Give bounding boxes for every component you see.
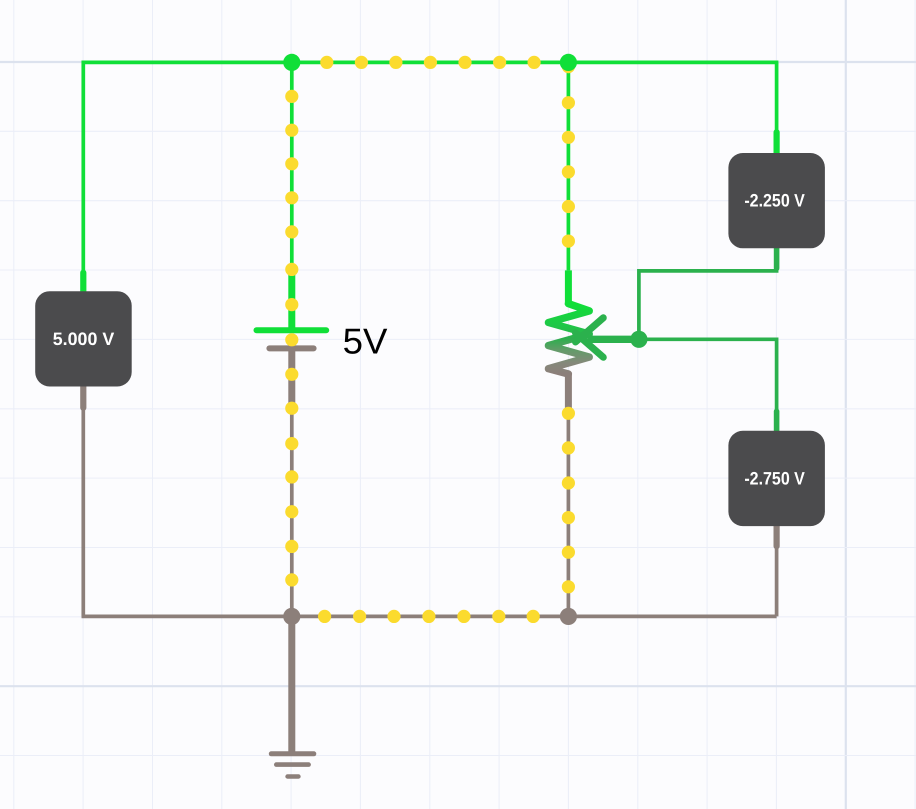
voltmeter M1: top stub bbox=[80, 273, 86, 296]
battery V1: negative plate bbox=[269, 345, 313, 351]
ground: bar 2 bbox=[276, 762, 308, 767]
svg-text:5.000 V: 5.000 V bbox=[53, 329, 115, 349]
wire: gray net, battery column below battery bbox=[290, 409, 294, 616]
svg-text:5V: 5V bbox=[343, 320, 388, 361]
voltmeter M3: body bbox=[728, 431, 825, 526]
ground: bar 3 bbox=[288, 774, 299, 778]
battery V1 (5V): positive lead bbox=[288, 270, 295, 331]
node junction: wiper node bbox=[630, 331, 647, 348]
svg-text:-2.250 V: -2.250 V bbox=[744, 191, 805, 211]
svg-text:-2.750 V: -2.750 V bbox=[744, 468, 805, 488]
potentiometer R1: bottom lead bbox=[565, 373, 572, 412]
node junction: pot column / top rail bbox=[560, 54, 577, 71]
voltmeter M3: top stub bbox=[774, 411, 780, 435]
wire: bright green net, potentiometer column above pot bbox=[567, 62, 571, 270]
wire: gray net, left column below 5.000V meter bbox=[81, 409, 85, 616]
voltmeter M1: body bbox=[35, 291, 132, 386]
node junction: battery column / top rail bbox=[283, 54, 300, 71]
node junction: pot column / bottom rail bbox=[560, 608, 577, 625]
wire: bright green net, right column down to -2.250V meter bbox=[775, 62, 779, 135]
voltmeter M2: top stub bbox=[773, 132, 779, 157]
wire: wiper net, from below -2.250V meter left and down to wiper junction bbox=[639, 248, 777, 340]
wire: bright green net, battery column above battery bbox=[290, 62, 294, 270]
current flow dots: pot column upper bbox=[562, 96, 575, 248]
wire: gray net, potentiometer column below pot bbox=[567, 411, 571, 616]
wire: gray net, right column below -2.750V meter bbox=[775, 548, 779, 616]
wire: bright green net, left column above 5.000V meter bbox=[81, 61, 85, 271]
voltmeter M2: body bbox=[728, 153, 825, 248]
potentiometer R1: wiper arrow shaft bbox=[591, 336, 639, 343]
current flow dots: pot column lower bbox=[562, 407, 575, 594]
ground: bar 1 bbox=[271, 751, 314, 756]
current flow dot hidden under junction bbox=[562, 60, 575, 73]
current flow dots: battery column bbox=[285, 90, 298, 587]
potentiometer R1: wiper arrowhead lower arm bbox=[576, 333, 604, 357]
wire: wiper net, from wiper junction right and down to -2.750V meter bbox=[639, 339, 777, 411]
battery V1: positive plate bbox=[257, 327, 327, 333]
battery V1: negative lead bbox=[288, 347, 295, 411]
potentiometer R1: wiper arrowhead upper arm bbox=[576, 318, 604, 342]
current flow dots: bottom rail bbox=[318, 610, 540, 623]
node junction: battery column / bottom rail bbox=[283, 608, 300, 625]
wire: gray net, bottom horizontal rail bbox=[82, 615, 777, 619]
voltmeter M1: bottom stub bbox=[80, 383, 86, 408]
current flow dots: top rail bbox=[320, 56, 541, 69]
wire: bright green net, top horizontal rail bbox=[82, 61, 779, 65]
voltmeter M2: bottom stub bbox=[774, 244, 780, 268]
potentiometer R1: top lead bbox=[565, 270, 572, 305]
ground: lead bbox=[288, 616, 295, 753]
voltmeter M3: bottom stub bbox=[773, 522, 779, 546]
